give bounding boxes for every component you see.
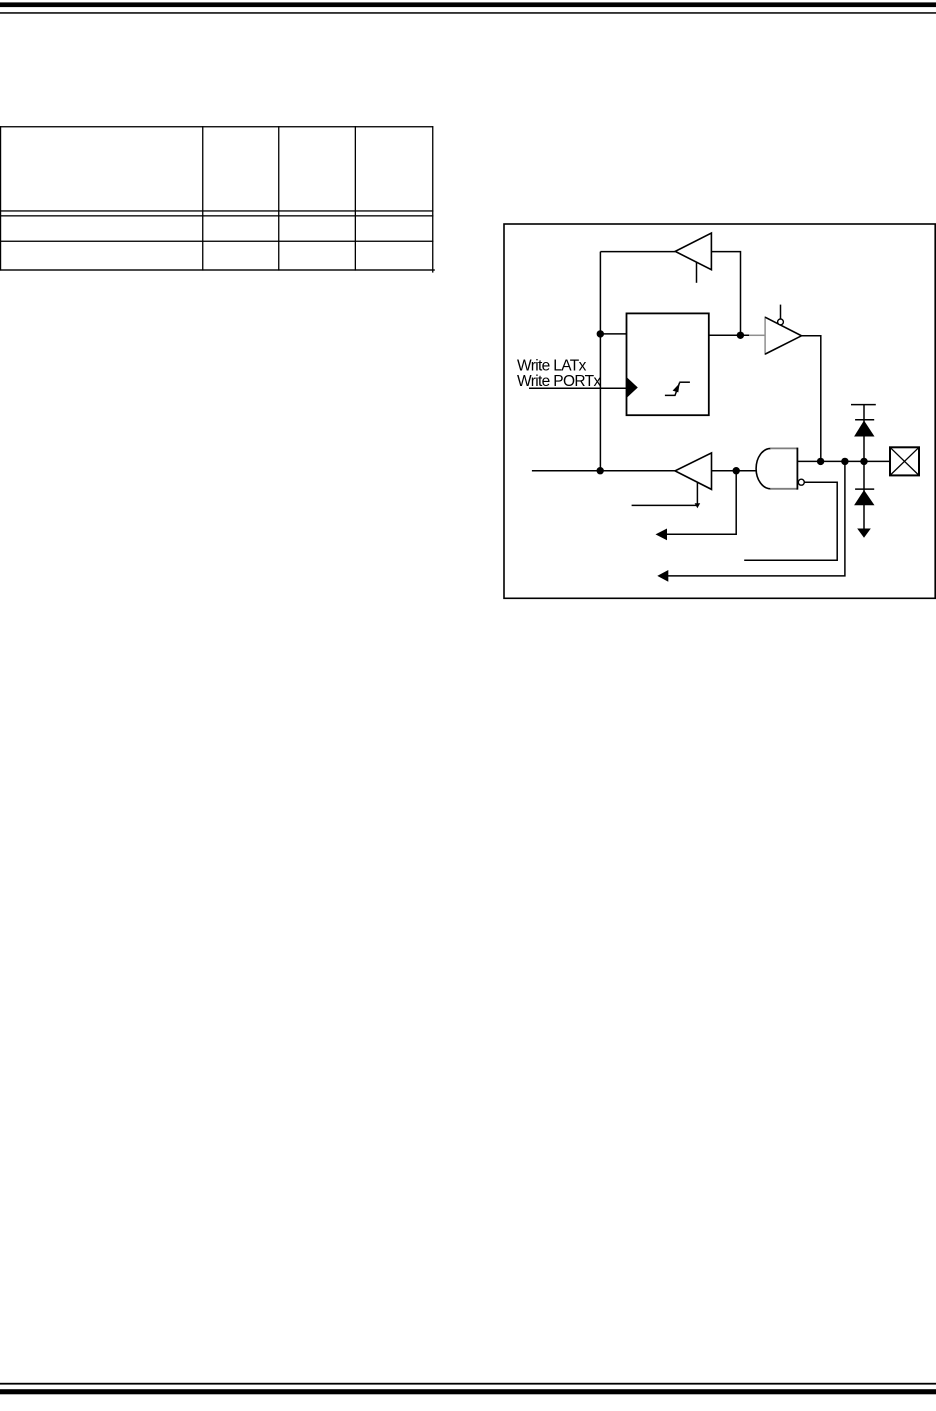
Schmitt input gate top edge (gray) — [770, 447, 797, 449]
node: latch output junction — [737, 332, 744, 339]
table left border — [0, 126, 1, 271]
wire: RD LATx return lower — [667, 461, 845, 576]
svg-text:Write LATx: Write LATx — [517, 357, 587, 374]
wire: gate bubble return — [744, 482, 837, 560]
output driver enable line — [780, 305, 782, 319]
diode stack vertical wire — [863, 405, 865, 530]
Schmitt input gate U5 arc — [756, 448, 771, 488]
input buffer enable label line — [632, 504, 698, 506]
latch rising-edge symbol — [665, 382, 690, 395]
wire: latch Q output — [709, 334, 750, 336]
I/O pad box — [890, 447, 919, 475]
table column line 2 — [278, 126, 279, 271]
protection diode D2 (to VSS) — [854, 490, 874, 505]
wire: WR LATx/PORTx strobe — [529, 387, 627, 389]
node: latch input junction — [597, 330, 604, 337]
input buffer enable tick arrowhead — [695, 503, 701, 508]
RD LATx arrowhead — [657, 570, 668, 582]
page footer rule thick — [0, 1389, 936, 1394]
protection diode D1 (to VDD) — [854, 421, 874, 437]
wire (gray) latch Q to output driver — [749, 334, 765, 336]
protection diode D2 cathode bar — [855, 488, 874, 490]
RD PORTx arrowhead — [656, 529, 668, 541]
wire: output driver to pad column — [802, 336, 821, 462]
input buffer U4 (points left) — [675, 453, 712, 490]
I/O pad X diagonal 2 — [890, 447, 919, 475]
node: diode stack junction — [860, 458, 867, 465]
page header rule thick — [0, 2, 936, 7]
table right border — [432, 126, 433, 273]
wire: data bus input line — [532, 470, 676, 472]
node: read port junction — [733, 467, 740, 474]
Schmitt input gate bottom edge (gray) — [770, 488, 797, 490]
node: driver output junction — [817, 458, 824, 465]
wire: buffer U1 output to latch node — [711, 252, 740, 336]
node: data bus junction — [597, 467, 604, 474]
wire: gate output to pad — [797, 460, 890, 462]
table header double rule lower — [0, 215, 433, 216]
VSS arrowhead — [857, 529, 871, 538]
wire: RD PORTx return — [665, 471, 736, 535]
table header double rule upper — [0, 210, 433, 211]
Schmitt input gate right edge — [796, 448, 798, 490]
wire: input buffer to gate — [712, 470, 757, 472]
svg-text:Write PORTx: Write PORTx — [517, 373, 601, 390]
page header rule thin — [0, 12, 936, 14]
page footer rule thin — [0, 1383, 936, 1385]
input buffer enable tick — [696, 483, 698, 506]
wire: latch D input — [600, 333, 626, 335]
output driver U3 triangle — [765, 317, 801, 354]
buffer U1 (port read buffer, points left) — [675, 233, 711, 283]
output driver U3 left edge (gray) — [764, 316, 766, 355]
Schmitt input gate bubble — [798, 479, 804, 485]
buffer U1 enable tick — [696, 262, 698, 283]
output driver enable bubble — [778, 319, 784, 325]
table row line — [0, 241, 433, 242]
wire: feedback top to buffer apex — [600, 251, 675, 253]
data latch U2 — [627, 313, 709, 415]
figure frame — [504, 224, 935, 598]
protection diode D1 cathode bar — [855, 419, 874, 421]
table top border — [0, 126, 433, 127]
latch clock edge arrowhead — [627, 377, 638, 398]
VDD rail bar — [851, 404, 876, 406]
latch rising-edge arrowhead — [673, 383, 680, 392]
table column line 1 — [202, 126, 203, 271]
wire: RD LATx feedback vertical — [599, 252, 601, 471]
node: read latch junction — [841, 458, 848, 465]
table bottom border — [0, 269, 435, 270]
I/O pad X diagonal 1 — [890, 447, 919, 475]
table column line 3 — [355, 126, 356, 271]
